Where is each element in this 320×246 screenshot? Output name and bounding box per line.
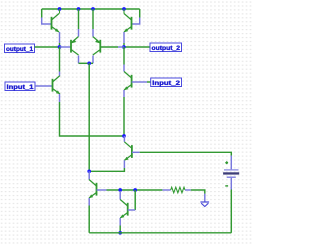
wire Q7 emitter (89, 168, 124, 171)
transistor Q4 (93, 37, 101, 56)
transistor Q6 (124, 72, 132, 91)
pin Q8 collector (88, 171, 90, 179)
wire Q4 base (100, 46, 118, 48)
transistor Q1 (52, 14, 60, 33)
node pair collectors junction (87, 61, 91, 65)
node output_1 junction (58, 45, 62, 49)
junction on rail at Q3 emitter (77, 7, 81, 11)
ground (200, 202, 209, 207)
pin battery bottom (230, 178, 232, 190)
wire bottom rail (89, 232, 231, 234)
pin Q2 emitter (123, 32, 125, 43)
pin Q5 base (35, 85, 53, 87)
wire Q7 base to battery (140, 152, 232, 155)
pin Q5 emitter (59, 94, 61, 102)
wire Q2 emitter to node output_2 (123, 43, 125, 47)
transistor Q8 (89, 180, 97, 199)
svg-text:input_2: input_2 (152, 80, 180, 87)
battery B1 plate thick (223, 172, 239, 174)
junction on rail at Q2 collector (122, 7, 126, 11)
terminal output_1 (5, 44, 35, 53)
wire Q5 emitter down (60, 102, 125, 136)
wire output_1 (35, 46, 60, 48)
wire Q4 collector (89, 62, 93, 64)
junction on rail at Q4 emitter (91, 7, 95, 11)
wire resistor to ground (191, 190, 205, 194)
resistor R1 (171, 187, 185, 193)
transistor Q3 (71, 37, 79, 56)
wire Q9 base link (134, 190, 136, 210)
wire Q3 emitter to rail (78, 9, 80, 29)
wire Q5 collector to node output_1 (59, 47, 61, 72)
wire Q1 base to rail (41, 9, 43, 18)
wire battery to bottom rail (230, 190, 232, 233)
wire Q3 collector (79, 62, 90, 64)
pin Q3 collector (78, 56, 80, 64)
battery B1 plate long top (224, 169, 239, 171)
pin Q7 collector (123, 136, 125, 142)
svg-text:output_2: output_2 (152, 45, 181, 52)
pin Q9 base (128, 209, 136, 211)
pin Q2 collector (123, 9, 125, 14)
junction on rail at Q1 collector (58, 7, 62, 11)
transistor Q9 (120, 200, 128, 219)
pin resistor left (162, 189, 170, 191)
wire Q6 emitter down (123, 97, 125, 136)
node mirror junction (87, 169, 91, 173)
pin Q6 emitter (123, 90, 125, 97)
transistor Q2 (124, 14, 132, 33)
wire Q6 base stub (147, 81, 151, 83)
pin Q1 base (42, 18, 52, 25)
pin Q8 emitter (88, 198, 90, 206)
transistor Q5 (53, 76, 61, 95)
pin Q9 emitter (119, 218, 121, 226)
svg-text:input_1: input_1 (7, 84, 35, 91)
pin Q2 base (132, 18, 140, 25)
battery B1 plate short (227, 176, 236, 178)
terminal input_2 (151, 78, 182, 87)
wire output_2 (124, 46, 150, 48)
wire centre line (88, 63, 90, 171)
pin Q7 base (132, 151, 140, 153)
pin Q7 emitter (123, 160, 125, 168)
wire Q2 base to rail (139, 9, 141, 18)
battery plus mark (225, 161, 228, 164)
pin Q6 base (132, 81, 147, 83)
pin Q4 collector (92, 56, 94, 64)
wire Q1 emitter to node output_1 (59, 43, 61, 47)
junction Q9 collector (118, 188, 122, 192)
battery minus mark (225, 185, 228, 187)
pin Q9 collector (119, 191, 121, 200)
transistor Q7 (124, 142, 132, 161)
wire Q8 emitter to bottom rail (88, 206, 90, 233)
pin resistor right (185, 189, 191, 191)
pin Q3 base (60, 46, 72, 48)
node tail junction (122, 134, 126, 138)
node output_2 junction (122, 45, 126, 49)
terminal input_1 (5, 82, 35, 91)
pin Q4 base end (118, 46, 124, 48)
junction Q9 base tap (133, 188, 137, 192)
pin ground (204, 194, 206, 202)
wire mirror bases (107, 189, 163, 191)
wire VCC top rail (42, 8, 140, 10)
pin battery top (230, 156, 232, 170)
pin Q6 collector (123, 65, 125, 72)
junction bottom rail (118, 231, 122, 235)
pin Q1 collector (59, 9, 61, 14)
pin Q1 emitter (59, 32, 61, 43)
pin Q5 collector (59, 72, 61, 76)
wire Q6 collector to node output_2 (123, 47, 125, 65)
svg-text:output_1: output_1 (6, 46, 33, 53)
pin Q8 base (97, 189, 107, 191)
wire Q4 emitter to rail (92, 9, 94, 29)
terminal output_2 (150, 43, 182, 52)
pin Q4 emitter (92, 29, 94, 37)
wire Q9 emitter (119, 226, 121, 233)
pin Q3 emitter (78, 29, 80, 37)
